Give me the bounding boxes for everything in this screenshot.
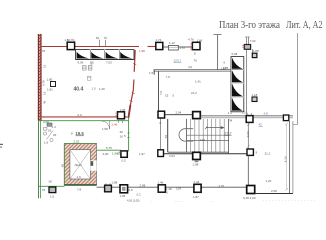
- wall: green corridor wall under room 40.4: [38, 120, 128, 122]
- svg-text:1,98: 1,98: [120, 108, 126, 112]
- svg-text:1,4: 1,4: [228, 111, 233, 115]
- svg-text:2,52: 2,52: [74, 140, 80, 144]
- stairs landing edge: [185, 119, 187, 152]
- svg-text:0,5: 0,5: [122, 159, 127, 163]
- column T1 on top wall: [67, 42, 74, 49]
- wall: vertical wall right of strip: [246, 50, 248, 116]
- stairs right wall: [228, 119, 230, 154]
- wall: double line over stairs to right wall: [200, 115, 293, 117]
- svg-text:2,04: 2,04: [176, 111, 182, 115]
- svg-text:6,06: 6,06: [78, 60, 84, 64]
- furniture marks in room 40.4: [83, 66, 87, 71]
- column T4 top right: [244, 45, 250, 50]
- wall: short vertical from T4 down: [252, 49, 254, 57]
- svg-text:0,18 2,00: 0,18 2,00: [243, 196, 256, 200]
- svg-text:5,98: 5,98: [232, 52, 238, 56]
- column T2 on top wall: [156, 42, 163, 49]
- stairs treads: [186, 119, 224, 152]
- corridor column C1: [121, 151, 127, 157]
- svg-text:. ... . .. .: . ... . .. .: [174, 200, 183, 203]
- wall: green corridor horizontal wall to elevator: [97, 149, 121, 151]
- stairs U handrail: [179, 129, 193, 141]
- svg-text:19.5: 19.5: [76, 131, 85, 136]
- elevator shaft cross: [70, 150, 90, 179]
- dimension 4,36 right room: [286, 124, 288, 190]
- column B3: [120, 185, 128, 193]
- svg-text:4,76: 4,76: [188, 38, 194, 42]
- window row bottom sill line: [76, 59, 135, 60]
- elevator green edges: [63, 144, 65, 186]
- svg-text:План 3-го этажа: План 3-го этажа: [219, 20, 280, 31]
- svg-text:7,02: 7,02: [250, 39, 256, 43]
- window W3: [106, 52, 119, 59]
- stairwell: left wall: [167, 119, 169, 152]
- svg-text:1,41: 1,41: [195, 80, 201, 84]
- wall: left exterior red hatched wall: [38, 34, 41, 121]
- svg-text:1,98: 1,98: [139, 49, 145, 53]
- svg-text:1,66: 1,66: [197, 39, 203, 43]
- svg-text:1,50 П: 1,50 П: [65, 38, 74, 42]
- svg-text:76: 76: [194, 59, 198, 63]
- svg-text:56: 56: [164, 135, 168, 139]
- svg-text:0,5: 0,5: [129, 188, 134, 192]
- svg-text:1,80: 1,80: [47, 78, 53, 82]
- svg-text:1,05: 1,05: [120, 194, 126, 198]
- svg-text:57: 57: [90, 61, 94, 65]
- wall x248 lower segment: [247, 156, 249, 186]
- svg-text:128: 128: [176, 187, 181, 191]
- wall between M2 and stairs column: [165, 114, 193, 116]
- svg-text:1,87: 1,87: [193, 195, 199, 199]
- window V2: [232, 70, 243, 82]
- svg-text:15: 15: [165, 94, 169, 98]
- svg-text:6,2: 6,2: [137, 193, 142, 197]
- svg-text:21,2: 21,2: [225, 132, 232, 136]
- stairs mid rails: [186, 134, 229, 136]
- column M3 stairs top: [193, 112, 201, 119]
- column M6 pilaster on left wall: [51, 82, 56, 87]
- svg-text:1,57: 1,57: [180, 46, 186, 50]
- svg-text:1,26: 1,26: [99, 87, 105, 91]
- svg-text:34: 34: [229, 119, 233, 123]
- svg-text:7,8: 7,8: [77, 188, 82, 192]
- svg-text:56: 56: [42, 49, 46, 53]
- svg-text:2,97: 2,97: [219, 184, 225, 188]
- svg-text:16: 16: [48, 129, 52, 133]
- svg-text:194: 194: [200, 138, 205, 142]
- svg-text:4,8: 4,8: [264, 112, 269, 116]
- wall: horizontal wall y70 (corridor top): [154, 69, 232, 71]
- svg-text:1,88: 1,88: [253, 49, 259, 53]
- svg-text:19: 19: [43, 91, 47, 95]
- column B6: [247, 186, 255, 194]
- svg-text:1,81: 1,81: [47, 88, 53, 92]
- svg-text:7,8: 7,8: [166, 75, 171, 79]
- svg-text:21,2: 21,2: [265, 152, 271, 156]
- svg-text:21,2: 21,2: [191, 91, 197, 95]
- svg-text:1,6: 1,6: [44, 141, 49, 145]
- bottom corridor wall line: [97, 186, 247, 188]
- wall: T-shaped wall stub upper middle: [217, 35, 219, 70]
- column S1 stairs bottom: [193, 152, 201, 159]
- svg-text:1,46: 1,46: [158, 181, 164, 185]
- svg-text:45: 45: [43, 100, 47, 104]
- svg-text:5,75: 5,75: [106, 146, 112, 150]
- svg-text:1,0: 1,0: [92, 87, 97, 91]
- svg-text:1,9: 1,9: [77, 175, 82, 179]
- wall: right exterior thin wall: [296, 33, 298, 125]
- wall: vertical below M2 to column S2: [159, 119, 161, 150]
- door swing in corridor wall: [102, 121, 110, 129]
- svg-text:1,74: 1,74: [156, 38, 162, 42]
- svg-text:Лифт: Лифт: [75, 163, 83, 167]
- wall: top red wall line of room 40.4: [42, 46, 139, 48]
- svg-text:1,4: 1,4: [52, 125, 57, 129]
- left margin marks: [0, 144, 3, 145]
- column B1: [49, 187, 56, 193]
- elevator door opening: [90, 160, 96, 170]
- svg-text:28: 28: [49, 180, 53, 184]
- svg-text:1,98: 1,98: [193, 163, 199, 167]
- svg-text:.. .: .. .: [210, 200, 213, 203]
- svg-text:2,54: 2,54: [169, 154, 175, 158]
- svg-text:40.4: 40.4: [74, 87, 84, 93]
- svg-text:1,53: 1,53: [149, 71, 155, 75]
- wall: green wall at bottom left: [39, 185, 65, 187]
- window V3: [232, 84, 243, 97]
- svg-text:2,08: 2,08: [271, 189, 277, 193]
- wall: vertical wall x157.6: [158, 71, 160, 111]
- window row top: sill box: [76, 50, 135, 60]
- window W2: [91, 52, 104, 59]
- svg-text:1,0: 1,0: [242, 111, 246, 115]
- svg-text:65: 65: [42, 188, 46, 192]
- dimension 0,90 on wall x248: [247, 123, 249, 149]
- wall: bottom red wall line of room 40.4: [42, 116, 128, 118]
- column M2: [158, 111, 165, 118]
- column B4: [158, 185, 165, 192]
- svg-text:Лит. А, А2: Лит. А, А2: [286, 20, 323, 31]
- svg-text:2,00: 2,00: [43, 120, 49, 124]
- dimension ticks above window row: [99, 40, 101, 47]
- svg-text:4,78: 4,78: [42, 80, 46, 86]
- column M4: [246, 116, 253, 123]
- column S2: [158, 150, 164, 157]
- right wall double: [289, 121, 291, 193]
- svg-text:46: 46: [120, 130, 124, 134]
- column M1 at red diagonal end: [118, 112, 125, 119]
- window V4: [232, 98, 243, 111]
- svg-text:4,0: 4,0: [188, 65, 193, 69]
- small square column SQ2: [252, 97, 257, 102]
- column T3 on top wall: [192, 42, 200, 49]
- elevator shaft inner void: [70, 150, 91, 179]
- svg-text:1,66: 1,66: [112, 152, 118, 156]
- svg-text:6,0: 6,0: [78, 113, 83, 117]
- svg-text:2,98: 2,98: [140, 184, 146, 188]
- svg-text:1,97: 1,97: [139, 152, 145, 156]
- small square column T5: [252, 53, 257, 57]
- wall stubs above column T4: [245, 37, 247, 45]
- svg-text:16: 16: [120, 135, 124, 139]
- elevator shaft outer walls: [64, 144, 96, 186]
- svg-text:4,05 (1,05): 4,05 (1,05): [127, 199, 140, 203]
- svg-text:7,0: 7,0: [159, 90, 163, 95]
- wall: red diagonal wall of room 40.4: [134, 50, 135, 72]
- svg-text:1,58: 1,58: [102, 127, 108, 131]
- stairs direction arrow: [206, 127, 222, 129]
- svg-text:81: 81: [96, 36, 100, 40]
- svg-text:1,46: 1,46: [194, 180, 200, 184]
- svg-text:4,36: 4,36: [284, 156, 288, 162]
- door on top wall between T2,T3: [163, 46, 192, 48]
- window V1: [232, 58, 243, 69]
- window strip right: outer box: [231, 57, 244, 112]
- svg-text:76: 76: [104, 36, 108, 40]
- svg-text:7,03: 7,03: [106, 60, 112, 64]
- svg-text:26: 26: [53, 133, 57, 137]
- bottom right wall: [255, 193, 293, 195]
- wall: green left wall lower: [38, 121, 40, 199]
- svg-text:120,1: 120,1: [174, 59, 182, 63]
- window separators: [89, 50, 91, 60]
- svg-text:95: 95: [60, 164, 64, 168]
- svg-text:1,20: 1,20: [266, 179, 272, 183]
- svg-text:1,6: 1,6: [50, 195, 55, 199]
- svg-text:1,88: 1,88: [112, 181, 118, 185]
- svg-text:1,18: 1,18: [252, 93, 258, 97]
- faint dotted line bottom right: [263, 199, 316, 201]
- svg-text:2,46: 2,46: [112, 123, 118, 127]
- window W4: [120, 52, 133, 59]
- wall: green corridor vertical wall: [128, 118, 130, 152]
- svg-text:42: 42: [259, 123, 263, 127]
- WC fixtures lower-left of room: [47, 123, 52, 126]
- column C2R on wall x248: [247, 149, 253, 155]
- svg-text:1,12: 1,12: [169, 41, 175, 45]
- svg-text:1,87: 1,87: [221, 67, 227, 71]
- column B2: [105, 185, 112, 192]
- column B5: [194, 184, 201, 192]
- svg-text:16: 16: [43, 64, 47, 68]
- window W1: [77, 52, 90, 59]
- svg-text:0,90: 0,90: [246, 131, 250, 137]
- stairwell bottom lines: [168, 151, 229, 153]
- strip separators: [231, 69, 244, 71]
- column M5: [283, 115, 288, 121]
- svg-text:2,60: 2,60: [103, 152, 109, 156]
